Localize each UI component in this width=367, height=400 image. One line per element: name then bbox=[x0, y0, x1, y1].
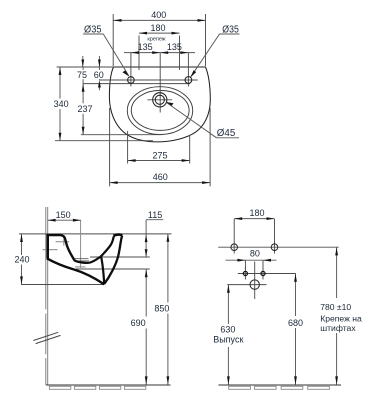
svg-text:Крепеж на: Крепеж на bbox=[320, 313, 362, 323]
svg-text:135: 135 bbox=[138, 42, 153, 52]
svg-text:400: 400 bbox=[151, 10, 166, 20]
svg-text:237: 237 bbox=[77, 104, 92, 114]
svg-text:штифтах: штифтах bbox=[320, 323, 356, 333]
svg-text:75: 75 bbox=[77, 70, 87, 80]
svg-text:690: 690 bbox=[131, 318, 146, 328]
svg-text:135: 135 bbox=[167, 42, 182, 52]
svg-text:630: 630 bbox=[220, 325, 235, 335]
svg-text:115: 115 bbox=[148, 210, 162, 220]
svg-text:780 ±10: 780 ±10 bbox=[320, 302, 351, 312]
svg-text:80: 80 bbox=[250, 248, 260, 258]
svg-text:180: 180 bbox=[249, 208, 264, 218]
svg-text:850: 850 bbox=[154, 304, 169, 314]
svg-text:460: 460 bbox=[153, 172, 168, 182]
svg-text:60: 60 bbox=[94, 70, 104, 80]
svg-text:180: 180 bbox=[150, 23, 165, 33]
svg-text:340: 340 bbox=[54, 99, 69, 109]
svg-text:680: 680 bbox=[288, 318, 303, 328]
svg-text:150: 150 bbox=[56, 210, 71, 220]
svg-text:Выпуск: Выпуск bbox=[213, 334, 243, 344]
svg-text:240: 240 bbox=[14, 255, 29, 265]
svg-text:275: 275 bbox=[152, 151, 167, 161]
